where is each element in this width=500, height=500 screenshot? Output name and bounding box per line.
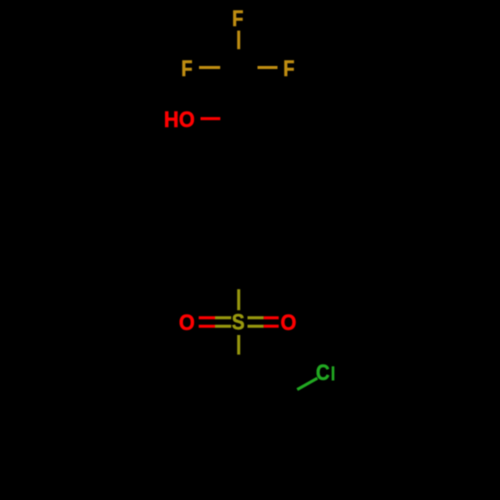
svg-text:O: O xyxy=(179,107,195,132)
bond S1=O3 upper line, S half xyxy=(248,316,264,319)
bond S1=O2 upper line, O half xyxy=(199,316,215,319)
svg-text:H: H xyxy=(164,106,179,132)
bond C1-F3 (horizontal, F half) xyxy=(258,66,278,69)
svg-text:F: F xyxy=(283,57,294,82)
bond S1=O3 lower line, O half xyxy=(264,325,279,328)
svg-text:S: S xyxy=(232,310,245,335)
svg-text:F: F xyxy=(181,57,192,82)
bond S1=O2 lower line, O half xyxy=(199,325,215,328)
svg-text:O: O xyxy=(280,310,296,335)
bond C1-F1 (vertical, F half) xyxy=(237,31,240,50)
bond C1-F2 (horizontal, F half) xyxy=(199,66,220,69)
bond S1=O2 upper line, S half xyxy=(215,316,231,319)
atom Cl1 (chlorine label), l glyph (drawn as bar) xyxy=(332,366,335,380)
bond S1=O3 upper line, O half xyxy=(264,316,279,319)
bond S1-C7 (vertical, S half) xyxy=(237,335,240,355)
bond S1=O3 lower line, S half xyxy=(248,325,264,328)
svg-text:F: F xyxy=(232,6,243,31)
svg-text:C: C xyxy=(316,361,330,386)
svg-text:O: O xyxy=(179,310,195,335)
bond S1=O2 lower line, S half xyxy=(215,325,231,328)
bond C6-S1 (vertical, S half) xyxy=(237,289,240,310)
bond C8-Cl1 (diagonal, Cl half) xyxy=(297,378,317,389)
bond O1-C2 (horizontal, O half) xyxy=(201,117,221,120)
